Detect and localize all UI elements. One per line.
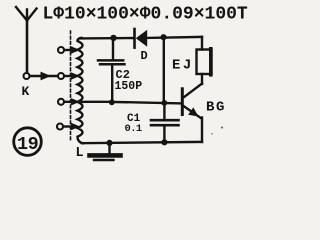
wire diode to junction — [147, 37, 202, 38]
svg-text:0.1: 0.1 — [125, 123, 142, 135]
svg-text:EJ: EJ — [172, 58, 194, 74]
coil tap terminal 3 — [58, 99, 64, 105]
capacitor C1 lead — [163, 102, 165, 119]
switch arrow — [41, 72, 52, 81]
wire coil top to diode — [80, 37, 134, 40]
earphone EJ body — [197, 50, 212, 75]
coil tap terminal 1 — [58, 47, 64, 53]
diode D cathode bar — [133, 29, 136, 48]
svg-text:BG: BG — [206, 100, 226, 116]
wire switch arm — [30, 75, 57, 77]
node ground junction — [106, 140, 112, 146]
wire tap 3 to base node — [65, 101, 112, 103]
capacitor C2 lead — [112, 38, 114, 59]
diode D triangle — [136, 30, 147, 47]
speck — [221, 126, 223, 128]
wire junction down to base wire — [163, 37, 165, 103]
wire base — [112, 102, 182, 104]
capacitor C2 plates — [98, 59, 123, 62]
capacitor C2 lower lead — [111, 64, 113, 102]
coil core dashed line — [70, 31, 72, 141]
node C2 top junction — [110, 35, 116, 41]
svg-text:LΦ10×100×Φ0.09×100T: LΦ10×100×Φ0.09×100T — [43, 4, 248, 24]
inductor L coil — [78, 38, 84, 143]
wire emitter down — [201, 118, 203, 143]
svg-text:L: L — [76, 146, 84, 161]
node detector junction — [160, 34, 166, 40]
wire EJ bottom to collector — [201, 74, 203, 84]
transistor BG base bar — [181, 89, 184, 115]
node C1 bottom junction — [161, 139, 167, 145]
ground — [90, 143, 121, 160]
transistor BG emitter — [184, 106, 202, 119]
transistor BG collector — [184, 84, 203, 98]
antenna — [16, 7, 37, 73]
wire EJ top lead — [201, 37, 203, 50]
wire tap 2 — [65, 75, 71, 77]
switch K contact circle — [24, 73, 30, 79]
wire tap 4 — [64, 125, 71, 127]
wire tap 1 — [65, 49, 71, 51]
svg-text:19: 19 — [17, 134, 38, 155]
wire bottom rail — [82, 142, 202, 143]
figure number 19 circle — [14, 128, 42, 156]
capacitor C1 lower lead — [163, 125, 165, 142]
coil tap terminal 2 — [58, 73, 64, 79]
svg-text:150P: 150P — [115, 80, 143, 93]
svg-text:D: D — [141, 49, 148, 63]
coil tap terminal 4 — [57, 124, 63, 130]
node C2 bottom junction — [109, 99, 115, 105]
node C1 top junction — [161, 100, 167, 106]
svg-text:K: K — [22, 84, 30, 99]
capacitor C1 plates — [151, 119, 179, 122]
